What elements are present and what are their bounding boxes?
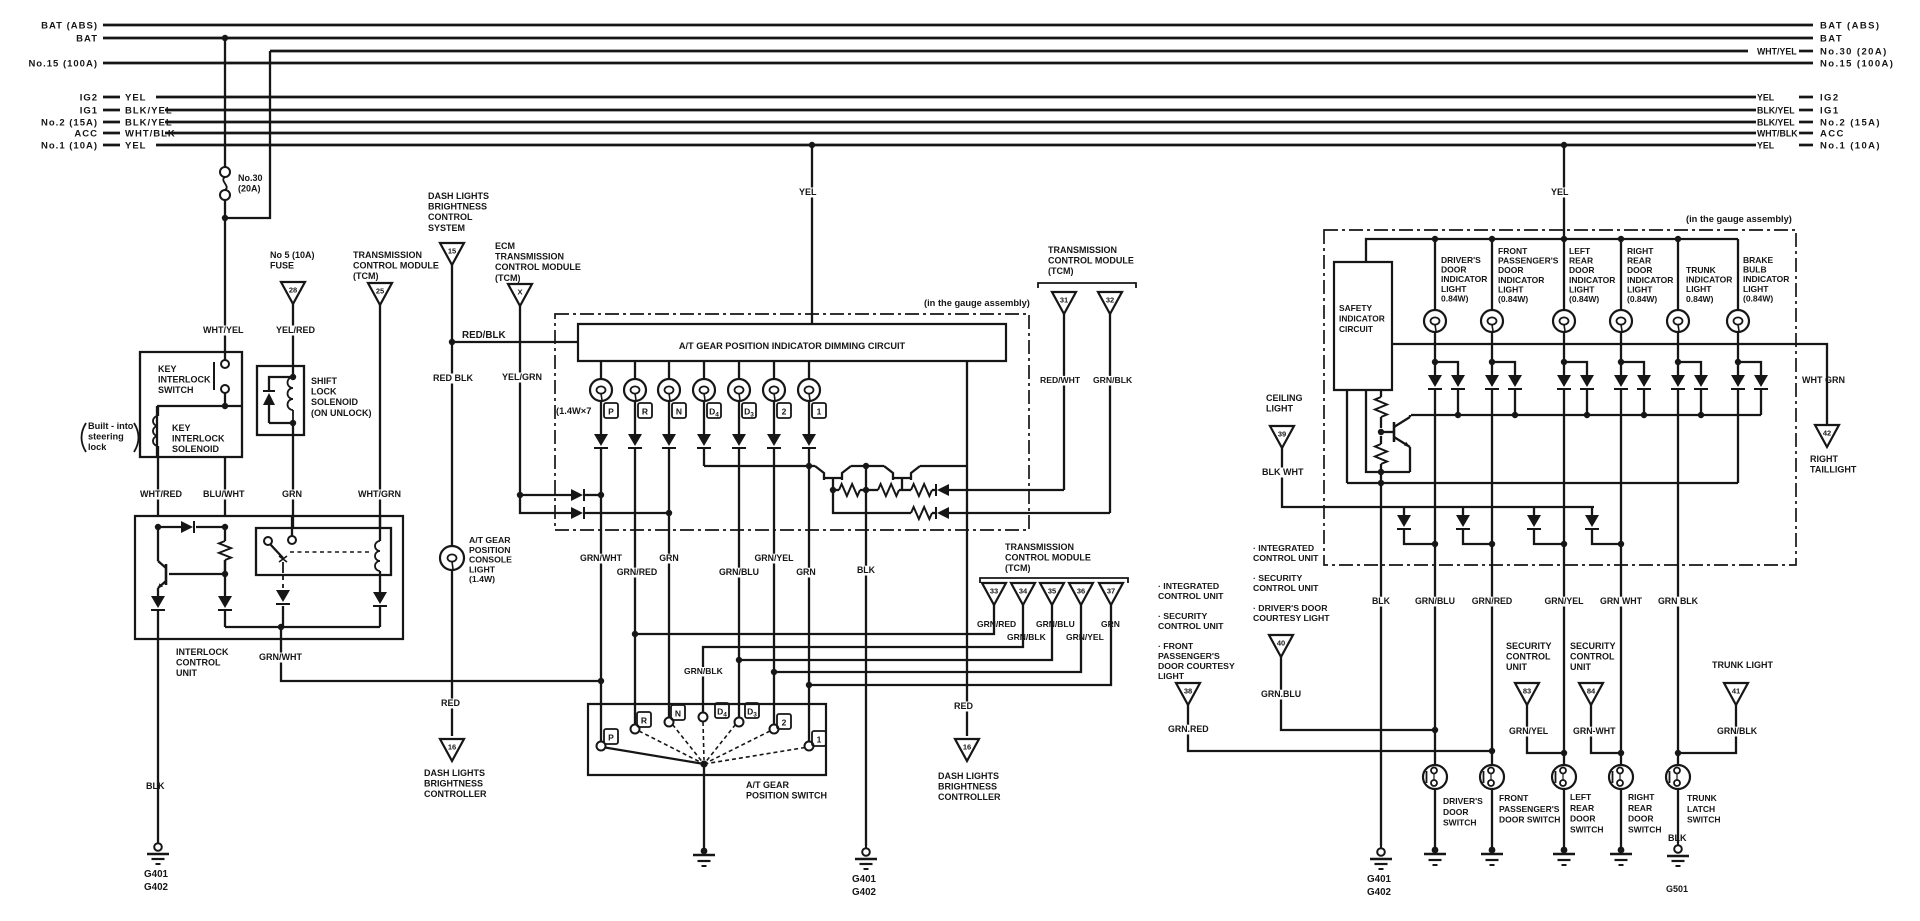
pin label switch D3 (745, 703, 759, 719)
svg-text:WHT/YEL: WHT/YEL (203, 325, 244, 335)
resistor R1 dimming (833, 484, 866, 496)
svg-text:ACC: ACC (74, 129, 98, 140)
wire safety emitter return (1366, 390, 1410, 472)
label BLK trunk (1668, 833, 1687, 843)
svg-text:CONTROL UNIT: CONTROL UNIT (1253, 553, 1319, 563)
svg-text:83: 83 (1523, 687, 1531, 696)
svg-text:G402: G402 (144, 882, 169, 893)
node 41 at column (1675, 750, 1681, 756)
svg-text:GRN.RED: GRN.RED (1168, 724, 1209, 734)
svg-text:P: P (608, 733, 614, 743)
svg-text:25: 25 (376, 287, 384, 296)
svg-text:GRN/RED: GRN/RED (977, 619, 1016, 629)
svg-text:PASSENGER'S: PASSENGER'S (1498, 256, 1559, 266)
wire lamp P to diode (600, 401, 602, 434)
label GRN/BLU 35 (1036, 619, 1075, 629)
svg-text:RIGHT: RIGHT (1628, 792, 1655, 802)
wire BLU/WHT (202, 457, 245, 516)
label CEILING LIGHT (1266, 393, 1303, 414)
svg-text:YEL: YEL (799, 187, 817, 197)
node YEL/GRN corner (517, 492, 523, 498)
svg-text:POSITION SWITCH: POSITION SWITCH (746, 791, 827, 801)
wire 35 to D3 column (739, 605, 1052, 660)
label KEY INTERLOCK SOLENOID (172, 423, 225, 454)
svg-text:BRIGHTNESS: BRIGHTNESS (424, 779, 483, 789)
wire feed trunk indicator light (1677, 239, 1679, 310)
svg-text:BLK WHT: BLK WHT (1262, 467, 1304, 477)
svg-text:No.2 (15A): No.2 (15A) (41, 118, 98, 129)
svg-text:INTERLOCK: INTERLOCK (176, 647, 229, 657)
label driver's door switch (1443, 796, 1483, 828)
relay box (256, 528, 391, 575)
pin label switch 2 (777, 714, 791, 729)
svg-text:POSITION: POSITION (469, 545, 511, 555)
wire shift lock branch (269, 377, 293, 391)
wire lamp N feed (668, 361, 670, 379)
label DASH LIGHTS BRIGHTNESS CONTROL SYSTEM (428, 191, 489, 233)
svg-text:BAT (ABS): BAT (ABS) (1820, 21, 1880, 32)
svg-text:RED: RED (954, 701, 974, 711)
node 38 at GRN.RED column (1489, 748, 1495, 754)
svg-text:Built - into: Built - into (88, 421, 134, 431)
svg-text:32: 32 (1106, 296, 1114, 305)
svg-text:GRN/WHT: GRN/WHT (259, 652, 302, 662)
node RED/BLK (449, 339, 455, 345)
bus ACC WHT/BLK (74, 129, 1844, 140)
svg-text:39: 39 (1278, 430, 1286, 439)
node diode pair 1492 (1489, 359, 1495, 365)
wire GRN (281, 435, 302, 528)
switch trunk latch switch (1666, 765, 1690, 789)
svg-text:TRANSMISSION: TRANSMISSION (495, 252, 564, 262)
svg-text:BRIGHTNESS: BRIGHTNESS (938, 782, 997, 792)
svg-text:INDICATOR: INDICATOR (1498, 275, 1544, 285)
svg-text:DOOR: DOOR (1628, 814, 1654, 824)
connector 40 (1269, 635, 1293, 657)
svg-text:CONTROL MODULE: CONTROL MODULE (1005, 553, 1091, 563)
svg-text:16: 16 (963, 743, 971, 752)
svg-text:LIGHT: LIGHT (1158, 671, 1185, 681)
svg-text:GRN: GRN (282, 489, 302, 499)
wire No.30 bus drop (225, 51, 270, 218)
resistor R2 dimming (866, 484, 902, 496)
ground driver's door switch (1424, 847, 1446, 865)
svg-text:GRN/BLK: GRN/BLK (684, 666, 724, 676)
resistor R4 dimming row2 (911, 507, 936, 519)
svg-text:· FRONT: · FRONT (1158, 641, 1194, 651)
lamp right rear door indicator light (1610, 310, 1632, 332)
wire 1 column GRN (796, 455, 816, 741)
svg-text:R: R (641, 716, 647, 726)
node GRN/WHT out (278, 624, 284, 630)
svg-text:LIGHT: LIGHT (1686, 284, 1712, 294)
coil key interlock solenoid (153, 406, 158, 457)
connector 42 (1815, 425, 1839, 447)
svg-text:DOOR SWITCH: DOOR SWITCH (1499, 815, 1560, 825)
wire feed driver's door indicator light (1434, 239, 1436, 310)
node No.1 YEL tap right (1561, 142, 1567, 148)
svg-text:DOOR: DOOR (1569, 265, 1595, 275)
fuse No.30 (20A) (220, 167, 230, 200)
svg-text:36: 36 (1077, 587, 1085, 596)
label TRANSMISSION CONTROL MODULE (TCM) 33-37 (1005, 542, 1091, 573)
node row2 at N (666, 510, 672, 516)
wire YEL/GRN row1 (520, 494, 571, 496)
svg-text:CONTROL UNIT: CONTROL UNIT (1253, 583, 1319, 593)
wire 34 to D4 contact (683, 605, 1023, 713)
svg-text:LEFT: LEFT (1570, 792, 1592, 802)
svg-text:RED/BLK: RED/BLK (462, 330, 506, 341)
node 84 at column (1618, 750, 1624, 756)
connector 37 (1099, 583, 1123, 605)
svg-text:GRN/WHT: GRN/WHT (580, 553, 623, 563)
wire GRN/RED 38 (1167, 705, 1492, 751)
ground A/T switch (693, 848, 715, 866)
wire lamp D4 feed (703, 361, 705, 379)
svg-text:LIGHT: LIGHT (1441, 284, 1467, 294)
svg-text:RIGHT: RIGHT (1627, 246, 1654, 256)
switch dashed R (639, 731, 704, 764)
svg-text:(1.4W): (1.4W) (469, 574, 495, 584)
diode interlock input (158, 521, 194, 533)
node diode pair 1435 (1432, 359, 1438, 365)
connector 28 (281, 282, 305, 304)
svg-text:· SECURITY: · SECURITY (1253, 573, 1302, 583)
lamp trunk indicator light (1667, 310, 1689, 332)
svg-text:TAILLIGHT: TAILLIGHT (1810, 465, 1857, 475)
wire P column GRN/WHT (580, 455, 623, 741)
node courtesy 1435 (1432, 541, 1438, 547)
svg-text:LATCH: LATCH (1687, 804, 1715, 814)
wire lamp 2 feed (773, 361, 775, 379)
node 40 at GRN.BLU column (1432, 727, 1438, 733)
svg-text:FRONT: FRONT (1498, 246, 1528, 256)
svg-text:No.30 (20A): No.30 (20A) (1820, 47, 1888, 58)
node collector bus 1458 (1455, 412, 1461, 418)
connector 32 (1098, 292, 1122, 314)
wire GRN/WHT 84 (1572, 705, 1621, 753)
wire console light to controller (440, 570, 461, 736)
label left rear door switch (1570, 792, 1604, 834)
diode R column (628, 434, 642, 455)
label front passenger's door switch (1499, 793, 1560, 825)
node interlock WHT/RED (155, 524, 161, 530)
contact D3 switch (735, 718, 744, 727)
svg-text:GRN/BLU: GRN/BLU (1036, 619, 1075, 629)
svg-text:GRN/BLK: GRN/BLK (1717, 726, 1758, 736)
node 1-column base bus (806, 463, 812, 469)
pin label switch D4 (715, 703, 729, 719)
svg-text:1: 1 (817, 735, 822, 745)
diode main 1564 (1557, 362, 1571, 389)
diode interlock out A (151, 596, 165, 639)
svg-text:(TCM): (TCM) (1048, 266, 1074, 276)
svg-text:1: 1 (817, 407, 822, 417)
node 36 at 2 (771, 669, 777, 675)
label dimming circuit (679, 341, 906, 351)
bus No.15 (100A) (28, 59, 1894, 70)
label in the gauge assembly middle (924, 298, 1030, 308)
svg-text:0.84W): 0.84W) (1441, 293, 1469, 303)
label integrated control unit block A (1158, 581, 1235, 681)
node 37 at 1 (806, 682, 812, 688)
svg-text:TRUNK: TRUNK (1686, 265, 1717, 275)
lamp 2 indicator (1.4W) (763, 379, 785, 401)
svg-text:BAT: BAT (1820, 34, 1843, 45)
diode YEL/GRN to N (571, 507, 669, 519)
node BAT tap (222, 35, 228, 41)
resistor safety upper (1375, 390, 1387, 428)
wire WHT/YEL to key interlock switch (202, 200, 244, 352)
diode row1 RED/WHT (936, 484, 1064, 496)
label SECURITY CONTROL UNIT 83 (1506, 641, 1552, 672)
connector 16 left (440, 739, 464, 761)
diode P column (594, 434, 608, 455)
collector bus safety (1411, 414, 1761, 416)
svg-text:GRN: GRN (659, 553, 679, 563)
wire 2 column GRN/YEL (754, 455, 794, 724)
svg-text:R: R (642, 407, 648, 417)
diode courtesy 1463 (1456, 507, 1492, 544)
wire GRN/BLK from 32 (1092, 314, 1133, 513)
wire column GRN/YEL (1544, 389, 1584, 765)
pin label switch P (604, 729, 618, 744)
switch front passenger's door switch (1480, 765, 1504, 789)
svg-text:SOLENOID: SOLENOID (172, 444, 220, 454)
svg-text:CONTROL UNIT: CONTROL UNIT (1158, 591, 1224, 601)
wire feed right rear door indicator light (1620, 239, 1622, 310)
svg-text:No 5 (10A): No 5 (10A) (270, 250, 315, 260)
wire BAT to fuse No.30 (224, 38, 226, 167)
diode branch 1492 (1492, 362, 1522, 415)
svg-text:WHT/GRN: WHT/GRN (358, 489, 401, 499)
svg-text:DOOR: DOOR (1498, 265, 1524, 275)
contact 1 switch (805, 742, 814, 751)
svg-text:CONTROL: CONTROL (176, 658, 221, 668)
svg-text:INDICATOR: INDICATOR (1441, 274, 1487, 284)
svg-text:KEY: KEY (172, 423, 191, 433)
svg-text:SECURITY: SECURITY (1506, 641, 1552, 651)
diode YEL/GRN to P (571, 489, 601, 501)
ground left rear door switch (1553, 847, 1575, 865)
svg-text:BRIGHTNESS: BRIGHTNESS (428, 202, 487, 212)
switch dashed 2 (704, 731, 770, 764)
label driver's door indicator light (1441, 255, 1487, 303)
svg-text:(20A): (20A) (238, 184, 261, 194)
node safety base (1378, 429, 1384, 435)
feed bus right (1366, 239, 1738, 262)
connector 15 (440, 243, 464, 265)
svg-text:LIGHT: LIGHT (1627, 284, 1653, 294)
svg-text:WHT/YEL: WHT/YEL (1757, 47, 1797, 57)
wire lamp P feed (600, 361, 602, 379)
wire RED/BLK to dimming box (452, 330, 578, 342)
wire GRN/YEL 83 (1508, 705, 1564, 753)
svg-text:No.1 (10A): No.1 (10A) (41, 141, 98, 152)
pin label switch 1 (812, 731, 826, 746)
wire column GRN.BLU (1415, 389, 1455, 765)
A/T gear position switch box (588, 704, 826, 775)
node shift lock bottom (290, 420, 296, 426)
connector 41 (1724, 683, 1748, 705)
svg-text:SYSTEM: SYSTEM (428, 223, 465, 233)
switch dashed D3 (704, 725, 736, 765)
svg-text:GRN BLK: GRN BLK (1658, 596, 1699, 606)
wire driver's door indicator light to diodes (1434, 332, 1436, 362)
diode branch 1435 (1435, 362, 1465, 415)
svg-text:DOOR: DOOR (1627, 265, 1653, 275)
resistor interlock R1 (219, 527, 231, 574)
node Q1 emitter (830, 487, 836, 493)
svg-text:G401: G401 (144, 869, 169, 880)
switch rotor common (700, 760, 707, 767)
wire feed left rear door indicator light (1563, 239, 1565, 310)
svg-text:INDICATOR: INDICATOR (1339, 314, 1385, 324)
relay fixed contact (288, 516, 296, 544)
svg-text:38: 38 (1184, 687, 1192, 696)
gauge assembly box middle (555, 314, 1029, 530)
svg-text:LIGHT: LIGHT (469, 564, 496, 574)
diode main 1492 (1485, 362, 1499, 389)
label TRANSMISSION CONTROL MODULE (TCM) 31-32 (1048, 245, 1134, 276)
node interlock BLU/WHT (222, 524, 228, 530)
svg-text:KEY: KEY (158, 364, 177, 374)
svg-text:(in the gauge assembly): (in the gauge assembly) (924, 298, 1030, 308)
lamp N indicator (1.4W) (658, 379, 680, 401)
svg-text:No.1 (10A): No.1 (10A) (1820, 141, 1881, 152)
node feed bus 1621 (1618, 236, 1624, 242)
pin label P (604, 403, 618, 418)
pin label switch N (671, 705, 685, 720)
wire YEL/RED (275, 304, 316, 366)
svg-text:2: 2 (782, 407, 787, 417)
svg-text:(TCM): (TCM) (1005, 563, 1031, 573)
svg-text:G402: G402 (1367, 887, 1392, 898)
svg-text:BLU/WHT: BLU/WHT (203, 489, 245, 499)
wire right rear door indicator light to diodes (1620, 332, 1622, 362)
svg-text:DOOR: DOOR (1570, 814, 1596, 824)
svg-text:TRUNK: TRUNK (1687, 793, 1718, 803)
interlock control unit box (135, 516, 403, 639)
diode 2 column (767, 434, 781, 455)
wire 37 to 1 column (809, 605, 1111, 685)
node collector bus 1587 (1584, 412, 1590, 418)
svg-text:CONTROLLER: CONTROLLER (938, 792, 1001, 802)
svg-text:G402: G402 (852, 887, 877, 898)
wire column GRN.RED (1472, 389, 1513, 765)
wire RED output (953, 361, 974, 736)
svg-text:BLK/YEL: BLK/YEL (1757, 106, 1795, 116)
node GRN/WHT at P column (598, 678, 604, 684)
svg-text:YEL: YEL (125, 93, 146, 104)
pin label R (638, 403, 652, 418)
safety indicator circuit box (1334, 262, 1392, 390)
ground G501 trunk latch switch (1666, 843, 1689, 894)
diode courtesy 1404 (1397, 507, 1435, 544)
svg-text:TRANSMISSION: TRANSMISSION (1005, 542, 1074, 552)
svg-text:A/T GEAR: A/T GEAR (469, 535, 511, 545)
svg-text:DASH LIGHTS: DASH LIGHTS (938, 771, 999, 781)
node diode pair 1678 (1675, 359, 1681, 365)
wire YEL right (1550, 145, 1569, 239)
svg-text:(TCM): (TCM) (495, 273, 521, 283)
wire lamp N to diode (668, 401, 670, 434)
bracket TCM 31-32 (1038, 283, 1136, 288)
diode main 1738 (1731, 362, 1745, 389)
svg-text:CONTROLLER: CONTROLLER (424, 789, 487, 799)
svg-text:GRN/BLU: GRN/BLU (719, 567, 759, 577)
svg-text:No.15 (100A): No.15 (100A) (28, 59, 98, 70)
svg-text:DOOR: DOOR (1441, 265, 1467, 275)
svg-text:0.84W): 0.84W) (1686, 294, 1714, 304)
wire lamp 1 to diode (808, 401, 810, 434)
relay pivot contact (264, 537, 272, 545)
svg-text:31: 31 (1060, 296, 1068, 305)
svg-text:YEL: YEL (1551, 187, 1569, 197)
svg-text:LOCK: LOCK (311, 387, 337, 397)
wire transistor base (169, 573, 225, 575)
lamp D4 indicator (1.4W) (693, 379, 715, 401)
label DASH LIGHTS BRIGHTNESS CONTROLLER right (938, 771, 1001, 802)
transistor Q safety (1381, 415, 1410, 472)
svg-text:SECURITY: SECURITY (1570, 641, 1616, 651)
connector 25 (368, 283, 392, 305)
svg-text:CONSOLE: CONSOLE (469, 555, 512, 565)
svg-text:G401: G401 (852, 874, 877, 885)
relay blade (270, 544, 287, 562)
svg-text:steering: steering (88, 432, 124, 442)
svg-text:(in the gauge assembly): (in the gauge assembly) (1686, 214, 1792, 224)
diode N column (662, 434, 676, 455)
svg-text:INDICATOR: INDICATOR (1686, 275, 1732, 285)
svg-text:REAR: REAR (1569, 256, 1593, 266)
A/T gear position indicator dimming circuit box (578, 324, 1006, 361)
svg-text:INDICATOR: INDICATOR (1627, 275, 1673, 285)
wire left rear door switch to ground (1563, 789, 1565, 847)
pin label D4 (707, 403, 721, 419)
node 35 at D3 (736, 657, 742, 663)
svg-text:UNIT: UNIT (1570, 662, 1591, 672)
contact N switch (665, 718, 674, 727)
svg-text:· INTEGRATED: · INTEGRATED (1158, 581, 1219, 591)
svg-text:CONTROL MODULE: CONTROL MODULE (353, 261, 439, 271)
switch dashed 1 (704, 748, 805, 765)
diode main 1435 (1428, 362, 1442, 389)
svg-text:CONTROL MODULE: CONTROL MODULE (1048, 256, 1134, 266)
wire diode to BLU/WHT node (196, 526, 225, 528)
svg-text:TRANSMISSION: TRANSMISSION (1048, 245, 1117, 255)
label TRANSMISSION CONTROL MODULE (TCM) upper-left (353, 250, 439, 281)
ground right rear door switch (1610, 847, 1632, 865)
label GRN/YEL 36 (1066, 632, 1104, 642)
svg-text:CEILING: CEILING (1266, 393, 1303, 403)
connector 34 (1011, 583, 1035, 605)
svg-text:CONTROL UNIT: CONTROL UNIT (1158, 621, 1224, 631)
svg-text:ACC: ACC (1820, 129, 1845, 140)
node safety ground bus (1378, 480, 1384, 486)
label SAFETY INDICATOR CIRCUIT (1339, 303, 1385, 334)
svg-text:SWITCH: SWITCH (1628, 824, 1662, 834)
label GRN 37 (1101, 619, 1120, 629)
node fuse output (222, 215, 228, 221)
node collector bus 1515 (1512, 412, 1518, 418)
svg-text:LIGHT: LIGHT (1498, 284, 1524, 294)
switch key interlock contacts (214, 352, 229, 406)
wire 33 to R column (635, 605, 994, 634)
svg-text:N: N (676, 407, 682, 417)
gauge assembly box right (1324, 230, 1796, 565)
svg-text:SHIFT: SHIFT (311, 376, 338, 386)
